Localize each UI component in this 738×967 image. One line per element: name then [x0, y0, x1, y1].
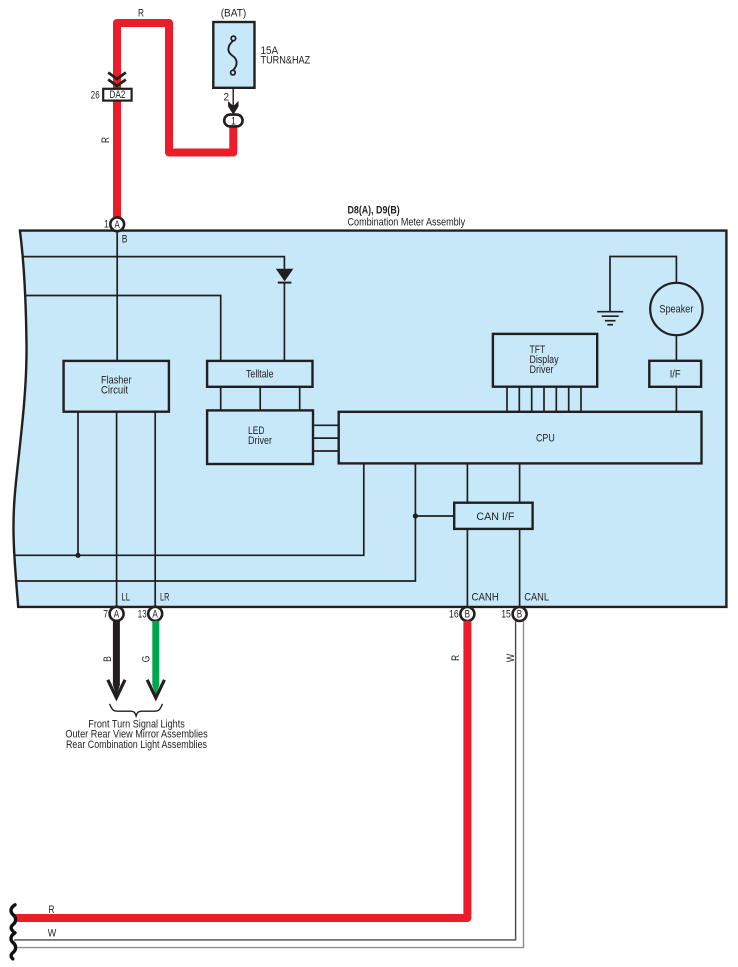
- wire B (pin1 to flasher circuit): [116, 231, 118, 361]
- wire R (CANH red, pin 16 to left continuation): [14, 621, 467, 918]
- brace (destination group): [110, 704, 163, 716]
- label CANH: [472, 592, 499, 604]
- wires LED driver to CPU: [313, 425, 339, 451]
- svg-text:7: 7: [103, 608, 108, 620]
- svg-text:R: R: [450, 655, 462, 661]
- svg-text:Driver: Driver: [248, 435, 272, 447]
- wire to telltale left input: [25, 296, 221, 361]
- svg-text:Driver: Driver: [530, 364, 554, 376]
- label W (wire color, CANL): [505, 653, 517, 662]
- wire CPU to flasher feedback: [15, 463, 364, 555]
- connector DA2: [103, 89, 131, 101]
- svg-text:B: B: [122, 234, 128, 246]
- svg-text:LL: LL: [121, 592, 130, 604]
- svg-text:(BAT): (BAT): [221, 8, 247, 20]
- wire W (CANL white, pin 15 to left continuation): [14, 621, 523, 948]
- label R (vertical wire): [100, 137, 112, 143]
- label LR: [160, 592, 170, 604]
- wire G (green, pin 13 to turn signal lights): [147, 621, 164, 698]
- svg-text:DA2: DA2: [109, 89, 125, 101]
- wires TFT display driver to CPU (7 lines): [507, 387, 581, 412]
- shielded wire marker (double chevron): [108, 73, 126, 87]
- svg-text:26: 26: [91, 89, 100, 101]
- label D8(A), D9(B) Combination Meter Assembly: [348, 205, 466, 229]
- wire R (battery feed from fuse to connector A pin 1): [117, 23, 233, 217]
- label (BAT): [221, 8, 247, 20]
- continuation squiggle (R wire): [11, 905, 16, 931]
- telltale: [207, 361, 312, 387]
- wire LL (flasher to pin 7): [116, 412, 118, 606]
- speaker: [650, 283, 702, 335]
- svg-text:CAN I/F: CAN I/F: [476, 511, 514, 523]
- svg-text:R: R: [138, 8, 144, 20]
- svg-text:R: R: [100, 137, 112, 143]
- fuse 15A TURN&HAZ: [213, 22, 254, 88]
- wire B (black, pin 7 to front turn signal lights): [108, 621, 125, 698]
- wires telltale to LED driver: [221, 387, 300, 411]
- wire flasher to junction: [77, 412, 79, 556]
- svg-text:Circuit: Circuit: [101, 385, 128, 397]
- svg-text:1: 1: [231, 115, 236, 127]
- svg-text:I/F: I/F: [670, 369, 681, 381]
- label B (wire color): [102, 656, 114, 662]
- svg-text:CANH: CANH: [472, 592, 499, 604]
- wire fuse to node 1: [228, 88, 238, 115]
- svg-text:16: 16: [449, 609, 459, 621]
- svg-text:LR: LR: [160, 592, 170, 604]
- svg-text:13: 13: [138, 608, 147, 620]
- svg-text:15: 15: [501, 609, 511, 621]
- connector A pin 13: [138, 607, 162, 621]
- diode: [276, 269, 294, 283]
- LED driver: [207, 410, 313, 464]
- svg-text:A: A: [114, 219, 120, 231]
- svg-text:B: B: [517, 609, 522, 621]
- svg-text:W: W: [505, 653, 517, 662]
- CPU: [339, 412, 702, 464]
- wire LR (flasher to pin 13): [154, 412, 156, 606]
- pin 2 (fuse): [224, 91, 230, 103]
- connector A pin 7: [103, 607, 123, 621]
- label destinations: [65, 719, 207, 751]
- connector B pin 16: [449, 607, 474, 621]
- label R (wire color, CANH): [450, 655, 462, 661]
- node 1 (circuit continuation): [224, 115, 242, 128]
- wire speaker to ground: [610, 257, 676, 312]
- continuation squiggle (W wire): [11, 933, 16, 959]
- wire CANH (CPU to pin 16): [466, 463, 468, 605]
- svg-text:TURN&HAZ: TURN&HAZ: [261, 55, 311, 67]
- svg-text:D8(A), D9(B): D8(A), D9(B): [348, 205, 401, 217]
- label W (bottom wire): [48, 928, 57, 940]
- junction dot (CAN branch): [413, 513, 418, 518]
- svg-text:Telltale: Telltale: [246, 369, 274, 381]
- label LL: [121, 592, 130, 604]
- svg-text:R: R: [49, 904, 55, 916]
- svg-text:Speaker: Speaker: [659, 304, 693, 316]
- svg-text:B: B: [102, 656, 114, 662]
- wire junction to CAN I/F: [415, 515, 454, 517]
- label R (top horizontal wire): [138, 8, 144, 20]
- ground: [597, 312, 623, 325]
- I/F: [649, 361, 701, 387]
- svg-text:W: W: [48, 928, 57, 940]
- svg-text:G: G: [140, 656, 152, 663]
- combination meter assembly D8(A) D9(B) body: [13, 231, 726, 607]
- svg-text:A: A: [152, 608, 158, 620]
- junction dot (flasher feedback): [75, 553, 80, 558]
- pin 26 (DA2): [91, 89, 100, 101]
- wire speaker to I/F: [675, 335, 677, 361]
- connector A pin 1: [104, 217, 124, 231]
- label R (bottom wire): [49, 904, 55, 916]
- wire to diode: [24, 257, 285, 269]
- wire I/F to CPU: [675, 387, 677, 412]
- CAN I/F: [454, 503, 532, 529]
- wire CPU to left edge (CAN branch): [17, 463, 416, 581]
- wire diode to telltale: [283, 283, 285, 361]
- svg-text:Combination Meter Assembly: Combination Meter Assembly: [348, 217, 466, 229]
- flasher circuit: [64, 361, 169, 412]
- wire CANL (CPU to pin 15): [519, 463, 521, 605]
- svg-text:1: 1: [104, 219, 109, 231]
- connector B pin 15: [501, 607, 526, 621]
- svg-text:CPU: CPU: [536, 433, 555, 445]
- svg-text:A: A: [114, 608, 120, 620]
- value label 15A TURN&HAZ: [261, 45, 311, 67]
- node B label: [122, 234, 128, 246]
- svg-text:CANL: CANL: [524, 592, 549, 604]
- svg-text:B: B: [465, 609, 470, 621]
- label CANL: [524, 592, 549, 604]
- svg-text:Rear Combination Light Assembl: Rear Combination Light Assemblies: [66, 739, 207, 751]
- TFT display driver: [493, 334, 597, 387]
- label G (wire color): [140, 656, 152, 663]
